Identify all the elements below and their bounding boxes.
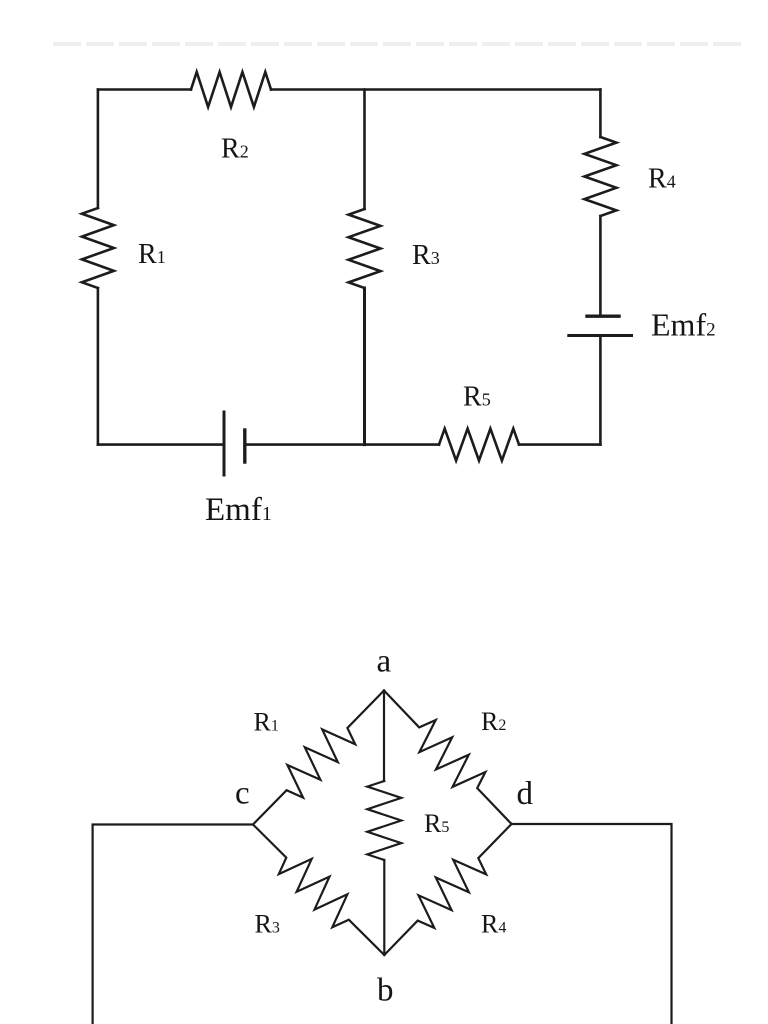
svg-text:d: d — [517, 776, 534, 812]
svg-text:R4: R4 — [481, 910, 506, 939]
svg-text:R4: R4 — [648, 164, 676, 195]
resistor R4 (bridge, between b and d) — [384, 824, 511, 955]
svg-text:R3: R3 — [255, 910, 280, 939]
wire: top-left horizontal segment of top circuit — [98, 88, 191, 91]
svg-text:c: c — [235, 776, 250, 812]
resistor R1 (bridge, between c and a) — [253, 691, 384, 825]
wire: middle vertical upper segment — [363, 90, 366, 210]
svg-text:b: b — [377, 973, 394, 1009]
wire: middle vertical lower segment — [363, 288, 366, 445]
svg-text:R2: R2 — [221, 134, 249, 165]
resistor R4 (top circuit) — [584, 137, 616, 216]
battery Emf1 short plate — [243, 430, 246, 462]
wire: from node c left and down to page bottom — [93, 825, 253, 1024]
wire: right vertical segment below Emf2 — [599, 337, 602, 445]
resistor R3 (top circuit) — [349, 209, 381, 288]
svg-text:Emf1: Emf1 — [205, 492, 272, 528]
svg-text:Emf2: Emf2 — [651, 307, 716, 343]
svg-text:a: a — [377, 644, 392, 680]
wire: bottom horizontal segment from Emf1 to R5 — [246, 443, 439, 446]
resistor R2 (top circuit) — [191, 72, 271, 107]
svg-text:R3: R3 — [412, 240, 440, 271]
svg-text:R1: R1 — [254, 708, 279, 737]
resistor R1 (top circuit) — [82, 208, 114, 288]
svg-text:R5: R5 — [424, 809, 449, 838]
svg-text:R2: R2 — [481, 707, 506, 736]
wire: right vertical upper segment — [599, 90, 602, 138]
wire: right vertical segment between R4 and Emf2 — [599, 216, 602, 315]
resistor R5 (top circuit) — [439, 429, 519, 461]
wire: left vertical lower segment — [97, 288, 100, 445]
wire: bottom-left horizontal segment to Emf1 — [98, 443, 224, 446]
faint dashed rule at top of page — [55, 42, 740, 46]
wire: left vertical upper segment — [97, 90, 100, 209]
resistor R2 (bridge, between a and d) — [384, 691, 512, 825]
resistor R3 (bridge, between c and b) — [253, 825, 384, 956]
battery Emf2 short plate — [587, 315, 619, 318]
wire: top horizontal segment from R2 to top-right corner — [271, 88, 600, 91]
wire: bridge center vertical from R5 to node b — [383, 860, 385, 955]
wire: bridge center vertical from node a to R5 — [383, 691, 385, 782]
svg-text:R1: R1 — [138, 239, 166, 270]
wire: from node d right and down to page bottom — [512, 824, 672, 1024]
battery Emf1 long plate — [223, 412, 226, 475]
resistor R5 (bridge) — [367, 781, 401, 860]
wire: bottom-right horizontal segment from R5 to corner — [519, 443, 600, 446]
battery Emf2 long plate — [569, 334, 632, 337]
svg-text:R5: R5 — [463, 382, 491, 413]
